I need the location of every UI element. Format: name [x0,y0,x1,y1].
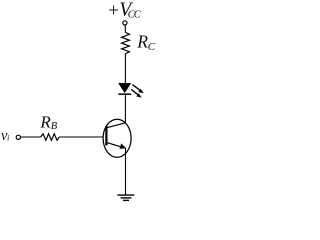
svg-text:C: C [148,41,156,53]
svg-text:+: + [108,0,119,21]
transistor Q1 body ellipse [103,119,131,157]
wire terminal to RB [20,136,40,138]
label RB [39,113,57,133]
input terminal circle [16,135,20,139]
LED D1 cathode bar [118,93,131,95]
wire RB to base [59,136,103,138]
wire RC to LED [124,54,126,84]
label RC [136,32,156,54]
resistor RB [41,134,60,140]
wire from terminal to RC [124,25,126,32]
transistor Q1 base bar [105,126,107,146]
svg-text:R: R [39,113,51,132]
LED emission arrow 2 [131,89,142,97]
wire LED to collector [124,95,126,123]
supply label +VCC [108,0,141,21]
ground symbol [117,195,134,200]
LED D1 triangle [119,83,131,93]
svg-text:i: i [7,133,10,143]
supply terminal circle [123,21,127,25]
LED emission arrow 1 [132,85,143,94]
svg-text:R: R [136,32,148,52]
svg-text:CC: CC [128,10,142,21]
svg-text:B: B [51,121,58,132]
transistor Q1 emitter line with arrow [106,142,126,149]
input label vi [1,128,10,144]
transistor Q1 collector line [107,123,126,128]
resistor RC [122,32,130,53]
wire emitter to ground [125,148,127,195]
